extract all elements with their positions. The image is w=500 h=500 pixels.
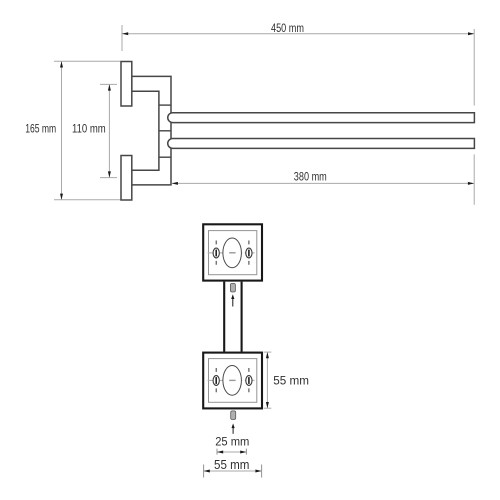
upper plate inner rect: [209, 231, 257, 275]
dim 450 line: [123, 33, 474, 35]
wall plate top: [121, 62, 132, 107]
svg-text:55 mm: 55 mm: [214, 458, 249, 472]
dim 450 arrow left: [122, 32, 128, 35]
svg-text:55 mm: 55 mm: [273, 373, 309, 387]
lower plate inner rect: [209, 359, 257, 403]
lower centerline vertical left: [215, 368, 217, 392]
lower center slot dash: [229, 380, 235, 381]
lower slot right: [248, 377, 250, 384]
dim 165 arrow top: [60, 61, 63, 67]
lower grub screw: [231, 411, 236, 420]
rail 2 (bottom bar): [168, 139, 475, 149]
post division line 3: [159, 156, 171, 158]
upper small ellipse left: [213, 248, 219, 258]
upper centerline horizontal: [208, 252, 258, 254]
post division line 2: [159, 130, 171, 132]
dim 25 arrow right: [240, 451, 246, 454]
dim 165 ext line bottom: [54, 199, 120, 201]
svg-text:450 mm: 450 mm: [271, 23, 304, 35]
upper slot right: [248, 250, 250, 257]
lower plate outer square: [203, 353, 262, 409]
wall plate bottom: [121, 156, 132, 201]
dim 25 line: [218, 451, 246, 453]
lower slot left: [215, 377, 217, 384]
post division line 1: [159, 104, 171, 106]
rail 1 (top bar): [168, 113, 475, 123]
dim 55 bottom line: [204, 470, 261, 472]
dim 25 arrow left: [217, 451, 223, 454]
bar right edge: [241, 282, 243, 352]
lower big ellipse: [223, 366, 242, 396]
lower small ellipse right: [246, 376, 252, 386]
dim 110 arrow top: [108, 84, 111, 90]
dim 450 ext line left: [121, 25, 123, 51]
dim 55 bottom tick right: [261, 465, 263, 478]
upper centerline vertical right: [248, 241, 250, 265]
dim 450 arrow right: [468, 32, 474, 35]
dim 55 bottom arrow left: [204, 470, 210, 473]
dim 25 tick left: [216, 449, 218, 455]
dim 110 arrow bottom: [108, 171, 111, 177]
dim 25 tick right: [245, 449, 247, 455]
dim 380 arrow left: [172, 182, 178, 185]
upper slot left: [215, 250, 217, 257]
svg-text:110 mm: 110 mm: [72, 123, 106, 135]
upper centerline vertical left: [215, 241, 217, 265]
bar left edge: [223, 282, 225, 352]
upper big ellipse: [223, 238, 242, 268]
dim 55 right arrow top: [266, 352, 269, 358]
dim 110 line: [108, 85, 110, 177]
connecting bar between plates: [225, 282, 240, 352]
lower screw arrow: [232, 427, 234, 434]
upper plate outer square: [203, 224, 262, 280]
svg-text:165 mm: 165 mm: [25, 123, 56, 135]
dim 165 arrow bottom: [60, 194, 63, 200]
upper center slot dash: [229, 252, 235, 253]
upper grub screw: [230, 283, 235, 292]
dim 55 right ext bottom: [264, 407, 272, 409]
dim 55 bottom tick left: [203, 465, 205, 478]
dim 165 ext line top: [54, 60, 120, 62]
dim 380 line: [172, 182, 473, 184]
arm and post outline: [132, 76, 171, 184]
dim 55 right arrow bottom: [266, 402, 269, 408]
dim 165 line: [61, 62, 63, 200]
dim 55 right ext top: [264, 351, 272, 353]
lower centerline vertical right: [248, 368, 250, 392]
svg-text:380 mm: 380 mm: [294, 171, 327, 183]
dim 450/380 ext line right upper: [473, 29, 475, 106]
dim 55 right line: [266, 353, 268, 408]
dim 380 arrow right: [468, 182, 474, 185]
dim 110 ext line top: [100, 83, 117, 85]
svg-text:25 mm: 25 mm: [215, 435, 249, 449]
lower centerline horizontal: [208, 379, 258, 381]
dim 450/380 ext line right lower: [473, 154, 475, 204]
dim 110 ext line bottom: [100, 177, 117, 179]
upper small ellipse right: [246, 248, 252, 258]
upper screw arrow: [232, 298, 234, 307]
lower small ellipse left: [213, 376, 219, 386]
dim 55 bottom arrow right: [255, 470, 261, 473]
